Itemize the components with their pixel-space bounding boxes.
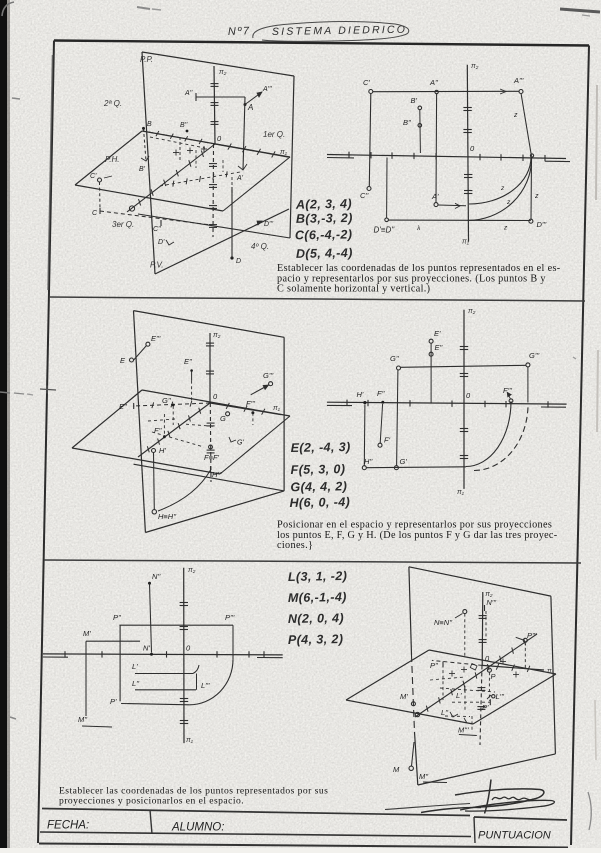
svg-text:π₁: π₁ (457, 489, 465, 496)
svg-text:E'': E'' (435, 343, 443, 352)
svg-text:G': G' (237, 440, 244, 447)
svg-text:C(6,-4,-2): C(6,-4,-2) (295, 227, 353, 242)
svg-text:M'': M'' (419, 772, 429, 781)
svg-text:M'': M'' (78, 715, 88, 724)
svg-text:F≡F': F≡F' (204, 453, 220, 462)
svg-text:F': F' (384, 436, 391, 445)
svg-text:L'': L'' (132, 679, 140, 688)
svg-text:π₁: π₁ (273, 405, 281, 412)
svg-text:Establecer las coordenadas de: Establecer las coordenadas de los puntos… (277, 263, 561, 274)
svg-text:π₂: π₂ (485, 591, 493, 598)
svg-text:N(2, 0, 4): N(2, 0, 4) (288, 611, 344, 626)
svg-text:Nº7: Nº7 (228, 25, 251, 38)
svg-text:P.V.: P.V. (150, 261, 164, 270)
svg-text:M': M' (83, 629, 91, 638)
svg-text:D(5, 4,-4): D(5, 4,-4) (296, 246, 353, 261)
svg-text:P''': P''' (527, 631, 537, 640)
svg-text:π₂: π₂ (213, 332, 221, 339)
svg-text:F(5, 3, 0): F(5, 3, 0) (291, 462, 346, 477)
svg-text:A': A' (431, 192, 439, 201)
svg-text:H': H' (357, 390, 364, 399)
svg-text:P(4, 3, 2): P(4, 3, 2) (288, 632, 344, 647)
svg-text:A: A (247, 103, 253, 112)
svg-text:E''': E''' (151, 334, 161, 343)
svg-text:L': L' (456, 691, 462, 700)
svg-text:E': E' (434, 329, 441, 338)
svg-text:π₂: π₂ (219, 69, 227, 76)
svg-text:B(3,-3, 2): B(3,-3, 2) (296, 211, 353, 226)
svg-text:B': B' (411, 96, 418, 105)
svg-text:F''': F''' (246, 399, 255, 408)
svg-text:B'': B'' (180, 122, 188, 129)
svg-text:D''': D''' (264, 221, 274, 228)
svg-text:D': D' (158, 239, 165, 246)
svg-text:π₁: π₁ (280, 149, 288, 156)
svg-text:B': B' (139, 166, 146, 173)
svg-text:π₁: π₁ (547, 668, 555, 675)
svg-text:G: G (220, 414, 226, 423)
svg-text:B'': B'' (403, 118, 411, 127)
svg-text:F'': F'' (377, 389, 385, 398)
svg-text:N'': N'' (152, 572, 161, 581)
svg-text:λ: λ (416, 225, 420, 232)
svg-text:H≡H'': H≡H'' (158, 512, 177, 521)
svg-text:P'': P'' (430, 661, 438, 670)
svg-text:M(6,-1,-4): M(6,-1,-4) (288, 590, 347, 605)
svg-text:L''': L''' (496, 692, 505, 701)
svg-text:H': H' (159, 446, 166, 455)
svg-text:E'': E'' (119, 402, 127, 411)
svg-text:π₂: π₂ (471, 63, 479, 70)
svg-text:G'': G'' (390, 354, 399, 363)
svg-text:L(3, 1, -2): L(3, 1, -2) (288, 569, 348, 584)
svg-text:N': N' (143, 644, 150, 653)
svg-text:G''': G''' (263, 371, 274, 380)
svg-text:P.H.: P.H. (105, 155, 120, 164)
svg-text:los puntos E, F, G y H. (De lo: los puntos E, F, G y H. (De los puntos F… (277, 530, 558, 541)
svg-text:3er Q.: 3er Q. (112, 220, 134, 229)
svg-text:C'': C'' (360, 191, 369, 200)
svg-text:P''': P''' (225, 613, 235, 622)
svg-text:A''': A''' (513, 76, 524, 85)
svg-text:L': L' (132, 662, 138, 671)
svg-text:C': C' (90, 173, 97, 180)
svg-text:A': A' (236, 175, 244, 182)
svg-text:H(6, 0, -4): H(6, 0, -4) (289, 495, 350, 510)
svg-text:2ª Q.: 2ª Q. (103, 99, 122, 108)
svg-text:E'': E'' (184, 357, 192, 366)
svg-text:H'': H'' (364, 457, 373, 466)
svg-text:P'': P'' (113, 613, 121, 622)
svg-text:π₁: π₁ (186, 737, 194, 744)
svg-text:H''': H''' (212, 470, 222, 479)
svg-text:proyecciones y posicionarlos e: proyecciones y posicionarlos en el espac… (59, 796, 244, 807)
svg-text:P': P' (110, 697, 117, 706)
svg-text:C': C' (363, 78, 370, 87)
svg-text:E(2, -4, 3): E(2, -4, 3) (291, 440, 351, 455)
svg-text:π₂: π₂ (468, 308, 476, 315)
svg-text:ALUMNO:: ALUMNO: (171, 822, 224, 834)
svg-text:M': M' (400, 692, 408, 701)
svg-text:G'': G'' (162, 396, 171, 405)
svg-text:1er Q.: 1er Q. (263, 130, 285, 139)
svg-text:z: z (513, 112, 518, 119)
svg-text:C'': C'' (153, 226, 161, 233)
svg-text:A'': A'' (429, 78, 438, 87)
svg-text:G(4, 4, 2): G(4, 4, 2) (290, 479, 347, 494)
svg-text:L''': L''' (201, 681, 210, 690)
svg-text:A''': A''' (262, 86, 272, 93)
svg-text:4º Q.: 4º Q. (251, 242, 269, 251)
svg-text:PUNTUACION: PUNTUACION (478, 830, 551, 842)
svg-text:Posicionar en el espacio y rep: Posicionar en el espacio y representarlo… (277, 520, 552, 531)
svg-text:π₂: π₂ (188, 567, 196, 574)
svg-text:z: z (534, 193, 539, 200)
svg-text:G''': G''' (529, 351, 540, 360)
svg-text:B: B (147, 121, 152, 128)
svg-text:D'≡D'': D'≡D'' (374, 226, 395, 235)
svg-text:G': G' (400, 457, 408, 466)
svg-text:P: P (491, 672, 496, 681)
svg-text:D: D (236, 258, 241, 265)
svg-text:P': P' (482, 703, 489, 712)
svg-text:D''': D''' (537, 220, 547, 229)
svg-text:SISTEMA DIEDRICO: SISTEMA DIEDRICO (272, 24, 407, 38)
svg-text:M: M (393, 765, 400, 774)
svg-text:FECHA:: FECHA: (47, 820, 89, 832)
svg-text:M''': M''' (458, 726, 469, 735)
svg-text:π₁: π₁ (462, 239, 470, 246)
svg-text:ciones.}: ciones.} (277, 540, 313, 551)
svg-text:N≡N'': N≡N'' (434, 618, 453, 627)
svg-text:A(2, 3, 4): A(2, 3, 4) (295, 197, 352, 212)
svg-text:P.P.: P.P. (140, 55, 153, 64)
svg-text:C solamente horizontal y verti: C solamente horizontal y vertical.) (277, 284, 430, 295)
svg-text:A'': A'' (184, 90, 193, 97)
svg-text:N''': N''' (486, 598, 496, 607)
